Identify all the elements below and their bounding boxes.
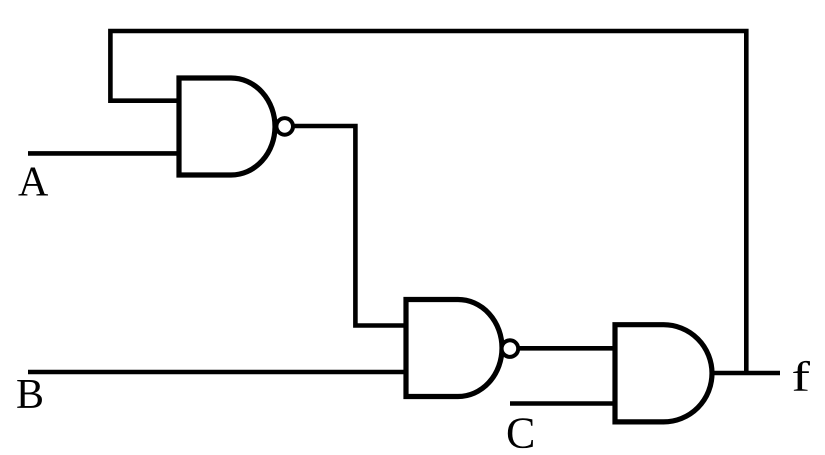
- svg-text:A: A: [18, 160, 49, 206]
- svg-text:C: C: [506, 408, 535, 455]
- svg-text:B: B: [16, 372, 44, 418]
- svg-text:f: f: [792, 353, 811, 400]
